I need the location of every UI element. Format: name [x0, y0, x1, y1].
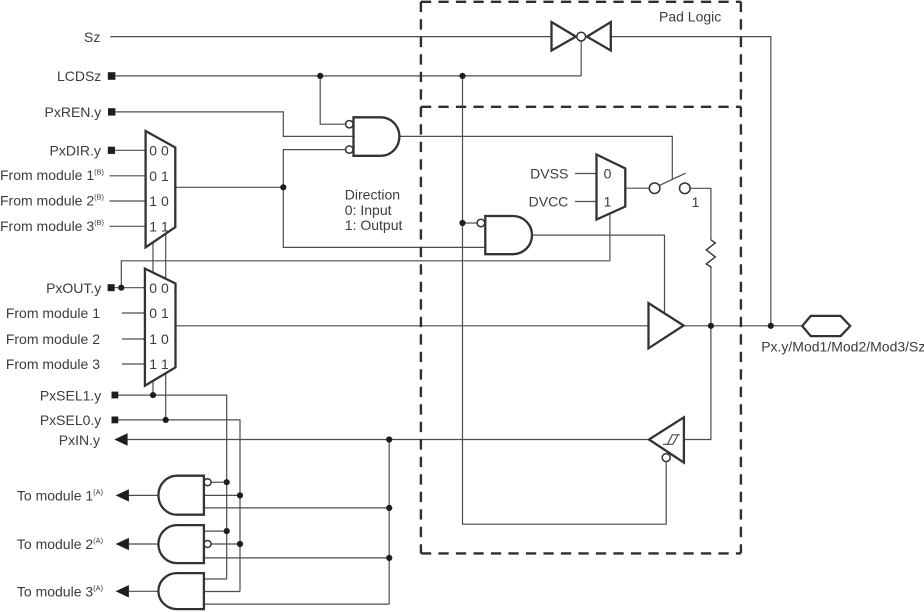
svg-text:PxSEL1.y: PxSEL1.y	[40, 387, 101, 403]
svg-text:0 1: 0 1	[149, 168, 169, 184]
svg-text:1: 1	[604, 194, 612, 210]
svg-text:PxOUT.y: PxOUT.y	[46, 280, 101, 296]
svg-text:PxIN.y: PxIN.y	[59, 432, 100, 448]
svg-text:1: 1	[692, 194, 700, 210]
svg-text:1: Output: 1: Output	[345, 217, 403, 233]
svg-text:0 0: 0 0	[149, 143, 169, 159]
svg-text:To module 1(A): To module 1(A)	[17, 488, 103, 504]
svg-text:1 0: 1 0	[149, 331, 169, 347]
svg-text:LCDSz: LCDSz	[57, 68, 101, 84]
svg-text:Px.y/Mod1/Mod2/Mod3/Sz: Px.y/Mod1/Mod2/Mod3/Sz	[761, 338, 924, 354]
svg-text:From module 2(B): From module 2(B)	[0, 193, 104, 209]
svg-text:Sz: Sz	[84, 29, 100, 45]
svg-text:To module 2(A): To module 2(A)	[17, 536, 103, 552]
svg-text:To module 3(A): To module 3(A)	[17, 584, 103, 600]
svg-text:PxDIR.y: PxDIR.y	[50, 143, 101, 159]
svg-text:0: Input: 0: Input	[345, 202, 392, 218]
svg-text:DVCC: DVCC	[529, 194, 569, 210]
svg-text:0 1: 0 1	[149, 305, 169, 321]
svg-text:PxSEL0.y: PxSEL0.y	[40, 412, 101, 428]
svg-text:1 1: 1 1	[149, 356, 169, 372]
svg-text:1 0: 1 0	[149, 193, 169, 209]
svg-text:1 1: 1 1	[149, 219, 169, 235]
svg-text:Pad Logic: Pad Logic	[659, 8, 721, 24]
svg-text:0: 0	[604, 166, 612, 182]
svg-text:From module 3(B): From module 3(B)	[0, 218, 104, 234]
svg-text:PxREN.y: PxREN.y	[45, 104, 102, 120]
svg-text:Direction: Direction	[345, 187, 400, 203]
svg-text:From module 1(B): From module 1(B)	[0, 167, 104, 183]
svg-text:From module 3: From module 3	[6, 356, 100, 372]
svg-text:From module 1: From module 1	[6, 305, 100, 321]
svg-text:DVSS: DVSS	[530, 166, 568, 182]
svg-text:From module 2: From module 2	[6, 331, 100, 347]
svg-text:0 0: 0 0	[149, 280, 169, 296]
